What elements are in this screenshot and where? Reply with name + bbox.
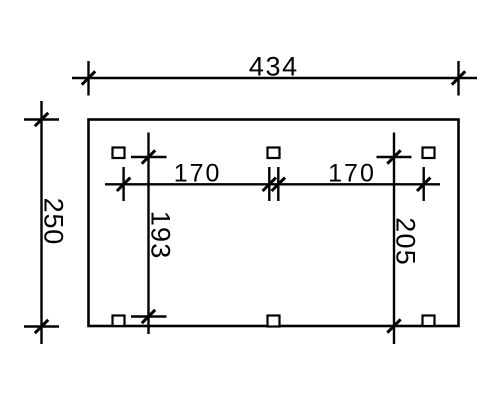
svg-text:170: 170 [174,160,222,188]
svg-text:193: 193 [146,211,176,260]
svg-text:170: 170 [328,160,376,188]
svg-text:205: 205 [391,217,421,266]
svg-text:434: 434 [249,52,299,82]
svg-text:250: 250 [39,198,69,245]
